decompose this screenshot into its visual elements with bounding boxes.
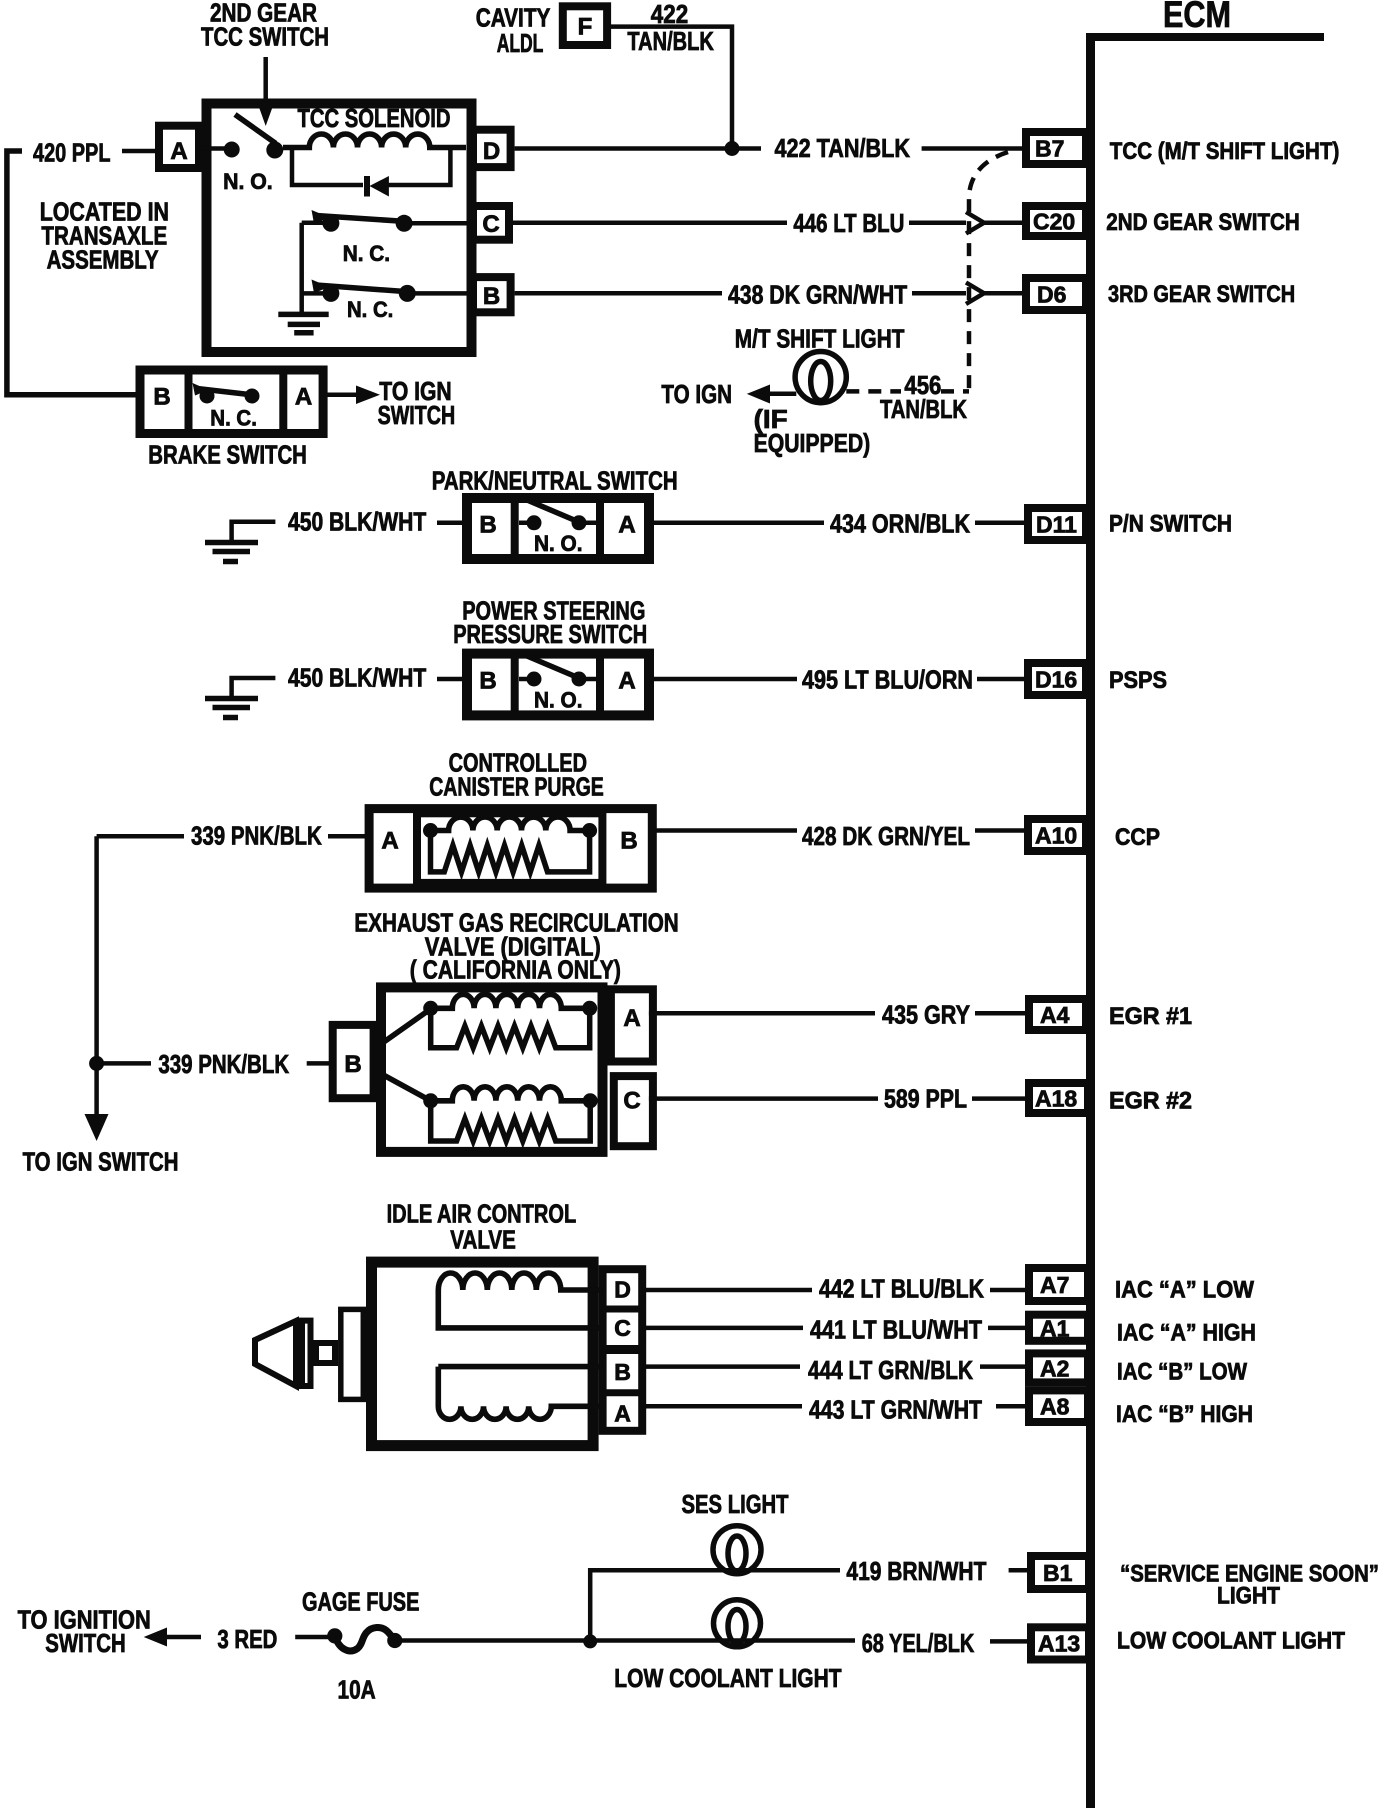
connector A (transaxle): [159, 126, 199, 168]
svg-text:D11: D11: [1036, 512, 1077, 538]
wire 419 BRN/WHT to ECM B1: [590, 1570, 840, 1641]
pin A2: [1029, 1353, 1088, 1382]
EGR coil L3 (top) with resistor R2: [423, 1001, 438, 1016]
svg-text:A18: A18: [1035, 1086, 1077, 1112]
ground (transaxle): [278, 312, 328, 318]
svg-text:F: F: [578, 14, 593, 41]
svg-text:SWITCH: SWITCH: [45, 1628, 125, 1658]
wire to ign (if equipped): [762, 391, 796, 396]
svg-text:419 BRN/WHT: 419 BRN/WHT: [846, 1556, 986, 1586]
ground (power steering): [232, 678, 276, 697]
wire divider cells: [185, 370, 193, 434]
CCP solenoid inner case: [417, 813, 602, 883]
svg-text:B: B: [344, 1051, 361, 1078]
svg-text:GAGE FUSE: GAGE FUSE: [302, 1587, 419, 1617]
svg-text:339 PNK/BLK: 339 PNK/BLK: [191, 821, 322, 851]
svg-text:TCC (M/T SHIFT LIGHT): TCC (M/T SHIFT LIGHT): [1110, 138, 1340, 165]
wire 589 PPL to ECM A18: [649, 1096, 878, 1101]
arrow to ign switch: [85, 1114, 109, 1141]
arrow from 2nd gear TCC switch label into box: [263, 57, 268, 102]
EGR connector C: [614, 1076, 653, 1146]
EGR connector B: [333, 1025, 374, 1098]
svg-text:420 PPL: 420 PPL: [33, 138, 111, 168]
wire 434 ORN/BLK to ECM D11: [649, 521, 824, 526]
IAC coil "B" L6: [438, 1364, 602, 1370]
svg-text:A: A: [381, 828, 398, 855]
pin C20: [1026, 206, 1086, 236]
svg-text:VALVE: VALVE: [450, 1225, 516, 1255]
IAC pintle flange: [302, 1321, 311, 1386]
svg-text:A1: A1: [1040, 1316, 1070, 1342]
svg-text:A4: A4: [1040, 1002, 1070, 1028]
pin A7: [1029, 1268, 1088, 1301]
svg-text:( CALIFORNIA ONLY): ( CALIFORNIA ONLY): [410, 955, 621, 985]
brake switch assembly: [140, 370, 323, 434]
svg-text:A: A: [614, 1401, 631, 1427]
pin A18: [1029, 1083, 1088, 1113]
svg-text:EGR #2: EGR #2: [1109, 1088, 1192, 1115]
svg-text:TAN/BLK: TAN/BLK: [880, 394, 967, 424]
wire 442 LT BLU/BLK to ECM A7: [642, 1288, 812, 1293]
wires from B to coils: [377, 1009, 431, 1047]
connector D (transaxle): [473, 130, 511, 167]
IAC valve body box: [372, 1262, 594, 1446]
svg-text:450 BLK/WHT: 450 BLK/WHT: [288, 507, 426, 537]
svg-text:SWITCH: SWITCH: [378, 400, 456, 430]
svg-text:D16: D16: [1035, 667, 1077, 693]
svg-text:SES LIGHT: SES LIGHT: [682, 1489, 789, 1519]
svg-text:ASSEMBLY: ASSEMBLY: [47, 245, 159, 275]
node junction 422: [725, 141, 740, 156]
power steering pressure switch assembly: [467, 654, 649, 716]
svg-text:495 LT BLU/ORN: 495 LT BLU/ORN: [802, 665, 973, 695]
wire 438 DK GRN/WHT from TCC B to ECM D6: [515, 291, 722, 296]
svg-text:B7: B7: [1035, 136, 1064, 162]
switch S5 N.O. (park/neutral): [527, 515, 542, 530]
wire 422 TAN/BLK from TCC D to ECM B7: [515, 146, 761, 151]
lamp M/T shift light: [795, 352, 846, 403]
EGR coil L4 (bottom) with resistor R3: [423, 1093, 438, 1108]
EGR valve assembly box: [381, 987, 603, 1152]
svg-text:A13: A13: [1038, 1631, 1080, 1657]
wire brake switch A to ign switch: [324, 393, 358, 398]
svg-text:TO IGN: TO IGN: [661, 379, 732, 409]
svg-text:446 LT BLU: 446 LT BLU: [793, 208, 904, 238]
wire 446 LT BLU from TCC C to ECM C20: [513, 220, 787, 225]
wire 441 LT BLU/WHT to ECM A1: [642, 1326, 803, 1331]
wire 495 LT BLU/ORN to ECM D16: [649, 677, 797, 682]
svg-text:D6: D6: [1037, 282, 1066, 308]
diode CR1 loop: [292, 148, 363, 186]
pin D6: [1026, 278, 1086, 310]
pin A10: [1028, 819, 1086, 851]
pin A13: [1031, 1627, 1089, 1659]
IAC connector column: [603, 1269, 643, 1431]
svg-text:A8: A8: [1040, 1394, 1070, 1420]
svg-text:TAN/BLK: TAN/BLK: [627, 26, 714, 56]
ECM boundary top edge: [1086, 33, 1324, 41]
svg-text:CANISTER PURGE: CANISTER PURGE: [429, 772, 604, 802]
svg-text:CCP: CCP: [1115, 824, 1160, 851]
svg-text:TO IGN SWITCH: TO IGN SWITCH: [23, 1147, 179, 1177]
svg-text:A: A: [618, 512, 635, 539]
TCC solenoid assembly box: [207, 104, 472, 353]
svg-text:10A: 10A: [338, 1675, 376, 1705]
svg-text:B: B: [479, 512, 496, 539]
pin B7: [1026, 132, 1086, 164]
svg-text:A: A: [618, 668, 635, 695]
wire 435 GRY to ECM A4: [649, 1011, 875, 1016]
svg-text:BRAKE SWITCH: BRAKE SWITCH: [148, 440, 307, 470]
svg-text:C: C: [482, 211, 499, 238]
svg-text:TCC SWITCH: TCC SWITCH: [201, 22, 329, 52]
svg-text:428 DK GRN/YEL: 428 DK GRN/YEL: [802, 821, 970, 851]
connector C (transaxle): [473, 206, 509, 240]
svg-text:EGR #1: EGR #1: [1109, 1003, 1192, 1030]
pin D16: [1028, 663, 1086, 695]
connector F (cavity ALDL): [563, 6, 607, 45]
svg-text:ECM: ECM: [1163, 0, 1231, 35]
dashed wire 456 from B7 down to M/T shift light: [969, 152, 1008, 391]
svg-text:N. O.: N. O.: [534, 531, 583, 556]
svg-text:3RD GEAR SWITCH: 3RD GEAR SWITCH: [1108, 281, 1295, 308]
svg-text:A: A: [623, 1005, 640, 1032]
svg-text:PSPS: PSPS: [1109, 667, 1167, 694]
wire 444 LT GRN/BLK to ECM A2: [642, 1364, 800, 1369]
svg-text:LOW COOLANT LIGHT: LOW COOLANT LIGHT: [614, 1663, 841, 1693]
svg-text:450 BLK/WHT: 450 BLK/WHT: [288, 663, 426, 693]
pin A1: [1029, 1315, 1088, 1341]
svg-text:N. O.: N. O.: [223, 169, 273, 194]
wire 428 DK GRN/YEL to ECM A10: [652, 828, 797, 833]
CCP resistor R1: [431, 831, 590, 872]
switch S2 N.C. (2nd gear switch): [302, 220, 326, 225]
pin B1: [1031, 1556, 1089, 1589]
ground (park/neutral): [232, 522, 276, 541]
node junction 339: [89, 1056, 104, 1071]
svg-text:D: D: [483, 138, 500, 165]
svg-text:A: A: [295, 384, 312, 411]
pin D11: [1028, 508, 1086, 540]
pin A8: [1029, 1390, 1088, 1422]
svg-text:TCC SOLENOID: TCC SOLENOID: [298, 103, 451, 133]
switch S6 N.O. (power steering): [527, 672, 542, 687]
switch S1 N.O. (2nd gear TCC switch): [224, 142, 240, 158]
wire to ground inside TCC box: [299, 223, 304, 314]
svg-text:D: D: [614, 1277, 631, 1303]
lamp low coolant light: [714, 1600, 761, 1647]
svg-text:422 TAN/BLK: 422 TAN/BLK: [775, 133, 911, 163]
svg-text:443 LT GRN/WHT: 443 LT GRN/WHT: [809, 1395, 982, 1425]
EGR connector A: [611, 989, 653, 1061]
pin A4: [1029, 999, 1086, 1030]
svg-text:N. C.: N. C.: [210, 406, 257, 431]
svg-text:N. C.: N. C.: [347, 297, 393, 322]
svg-text:A2: A2: [1040, 1356, 1069, 1382]
svg-text:B: B: [483, 283, 500, 310]
IAC pintle stem: [316, 1343, 335, 1363]
svg-text:LOW COOLANT LIGHT: LOW COOLANT LIGHT: [1117, 1628, 1345, 1655]
svg-text:68 YEL/BLK: 68 YEL/BLK: [862, 1628, 975, 1658]
switch S4 N.C. (brake switch): [200, 389, 215, 404]
svg-text:B1: B1: [1043, 1560, 1073, 1586]
svg-text:LIGHT: LIGHT: [1217, 1583, 1280, 1610]
svg-text:A7: A7: [1040, 1272, 1069, 1298]
svg-text:PARK/NEUTRAL SWITCH: PARK/NEUTRAL SWITCH: [432, 466, 678, 496]
connector B (transaxle): [473, 277, 511, 312]
node junction at gage fuse feed: [583, 1634, 597, 1648]
svg-text:589 PPL: 589 PPL: [884, 1084, 967, 1114]
svg-text:441 LT BLU/WHT: 441 LT BLU/WHT: [810, 1315, 982, 1345]
switch S3 N.C. (3rd gear switch): [322, 285, 339, 302]
svg-text:ALDL: ALDL: [497, 28, 544, 58]
fuse F1 10A: [295, 1635, 335, 1640]
wire 339 PNK/BLK (to CCP A): [97, 834, 184, 839]
svg-text:B: B: [614, 1359, 631, 1385]
svg-text:434 ORN/BLK: 434 ORN/BLK: [830, 509, 970, 539]
svg-text:339 PNK/BLK: 339 PNK/BLK: [158, 1049, 289, 1079]
wire 68 YEL/BLK to ECM A13: [402, 1638, 855, 1643]
svg-text:3 RED: 3 RED: [217, 1624, 277, 1654]
svg-text:438 DK GRN/WHT: 438 DK GRN/WHT: [728, 280, 907, 310]
svg-text:N. C.: N. C.: [343, 241, 390, 266]
IAC valve pintle cone: [255, 1321, 296, 1386]
wire from F to junction node: [611, 27, 732, 149]
svg-text:442 LT BLU/BLK: 442 LT BLU/BLK: [819, 1274, 984, 1304]
svg-text:IAC “B” LOW: IAC “B” LOW: [1117, 1359, 1247, 1386]
svg-text:A: A: [170, 138, 187, 165]
svg-text:C20: C20: [1033, 209, 1075, 235]
svg-text:435 GRY: 435 GRY: [882, 1000, 970, 1030]
svg-text:B: B: [479, 668, 496, 695]
svg-text:C: C: [614, 1315, 631, 1341]
svg-text:N. O.: N. O.: [534, 688, 583, 713]
svg-text:A10: A10: [1035, 823, 1077, 849]
controlled canister purge assembly: [369, 809, 652, 889]
wire 443 LT GRN/WHT to ECM A8: [642, 1404, 802, 1409]
wire 339 PNK/BLK feed down to ign switch: [94, 836, 99, 1121]
lamp SES light: [713, 1526, 761, 1574]
svg-text:IAC “A” LOW: IAC “A” LOW: [1115, 1277, 1254, 1304]
svg-text:IAC “B” HIGH: IAC “B” HIGH: [1116, 1401, 1253, 1428]
svg-text:B: B: [620, 828, 637, 855]
svg-text:P/N SWITCH: P/N SWITCH: [1109, 511, 1232, 538]
svg-text:2ND GEAR SWITCH: 2ND GEAR SWITCH: [1106, 209, 1300, 236]
IAC motor collar: [341, 1309, 364, 1399]
park/neutral switch assembly: [467, 498, 649, 559]
svg-text:444 LT GRN/BLK: 444 LT GRN/BLK: [808, 1355, 973, 1385]
svg-text:C: C: [623, 1088, 640, 1115]
ECM boundary vertical line: [1086, 33, 1095, 1808]
svg-text:PRESSURE SWITCH: PRESSURE SWITCH: [453, 619, 647, 649]
solenoid coil L1: [283, 134, 466, 148]
svg-text:EQUIPPED): EQUIPPED): [754, 428, 871, 458]
svg-text:IAC “A” HIGH: IAC “A” HIGH: [1117, 1320, 1256, 1347]
svg-text:B: B: [153, 384, 170, 411]
IAC coil "A" L5: [438, 1273, 602, 1290]
wire 420 PPL to brake switch and TCC A: [7, 151, 136, 395]
CCP solenoid coil L2: [423, 823, 438, 838]
